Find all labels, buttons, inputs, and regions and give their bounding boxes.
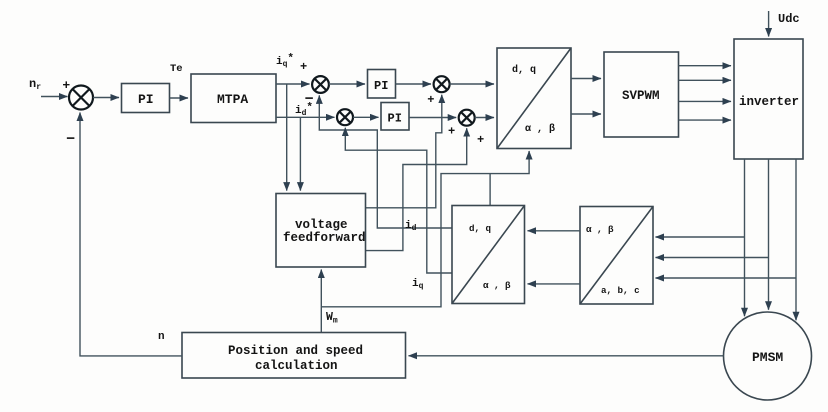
svg-text:PI: PI	[138, 92, 154, 107]
PMSM motor circle	[724, 312, 812, 400]
svg-text:+: +	[477, 133, 484, 147]
MTPA block	[191, 74, 276, 123]
summing junction J3	[337, 109, 353, 125]
wire wm from position box up to voltage feedforward	[320, 270, 322, 333]
svg-text:MTPA: MTPA	[217, 92, 248, 107]
svg-text:PI: PI	[374, 79, 388, 93]
wire branch id* down to voltage feedforward	[299, 117, 301, 190]
wire speed feedback n to J1 minus	[80, 113, 182, 356]
wire voltage feedforward output 2 to J5	[366, 128, 467, 250]
svg-text:α , β: α , β	[483, 280, 511, 291]
wire current tap a to abc transform	[656, 236, 745, 238]
wire dq box to SVPWM upper	[571, 78, 601, 80]
wire PMSM to position block	[409, 355, 724, 357]
svg-text:calculation: calculation	[255, 359, 338, 373]
svg-text:α , β: α , β	[586, 224, 614, 235]
wire theta branch to transforms	[321, 151, 529, 307]
summing junction J1	[69, 86, 93, 110]
svg-text:+: +	[448, 125, 455, 139]
wire inverter phase b down to PMSM	[768, 159, 770, 310]
wire current tap c to abc transform	[656, 277, 797, 279]
PI controller PIq box	[368, 70, 396, 99]
svg-text:SVPWM: SVPWM	[622, 89, 660, 103]
svg-text:Position and speed: Position and speed	[228, 344, 363, 358]
svg-text:PMSM: PMSM	[752, 350, 783, 365]
svg-text:+: +	[300, 60, 307, 74]
wire J3 to PId	[353, 116, 379, 118]
wire J5 to dq/ab transform	[475, 117, 494, 119]
wire PId to J5	[409, 117, 456, 119]
wire current tap b to abc transform	[656, 257, 769, 259]
svg-text:a, b, c: a, b, c	[601, 285, 640, 296]
svg-text:inverter: inverter	[739, 95, 799, 109]
wire abc box to feedback dq box lower	[528, 283, 581, 285]
wire feedback id to J2 minus	[319, 95, 452, 228]
wire inverter phase a down to PMSM	[744, 159, 746, 316]
svg-text:Udc: Udc	[778, 12, 800, 26]
wire J2 to PIq	[329, 83, 365, 85]
svg-text:d, q: d, q	[512, 64, 536, 76]
svg-text:d, q: d, q	[469, 223, 491, 234]
wire SVPWM to inverter 2	[679, 79, 732, 81]
svg-text:−: −	[66, 131, 75, 148]
summing junction J4	[434, 76, 450, 92]
SVPWM block	[604, 52, 679, 137]
wire feedback iq to J3 minus	[345, 128, 452, 273]
svg-text:Te: Te	[170, 63, 183, 75]
svg-text:α , β: α , β	[525, 123, 555, 135]
svg-text:n: n	[158, 331, 165, 343]
PI controller PId box	[381, 103, 409, 131]
svg-text:feedforward: feedforward	[283, 231, 366, 245]
wire MTPA iq* output to J2	[276, 83, 310, 85]
wire nr input	[41, 96, 68, 98]
svg-text:+: +	[62, 78, 70, 93]
svg-text:+: +	[427, 93, 434, 107]
summing junction J2	[312, 76, 329, 93]
wire voltage feedforward output 1 to J4	[366, 95, 442, 208]
abc to alpha-beta transform block	[580, 207, 653, 305]
position and speed calculation block	[182, 333, 406, 379]
wire J4 to dq/ab transform	[450, 83, 494, 85]
dq to alpha-beta transform block	[497, 48, 571, 149]
wire PIq to J4	[396, 83, 432, 85]
wire inverter phase c down to PMSM	[795, 159, 797, 320]
voltage feedforward block	[276, 194, 366, 268]
wire abc box to feedback dq box upper	[528, 230, 581, 232]
wire branch iq* down to voltage feedforward	[286, 84, 288, 191]
wire dq box to SVPWM lower	[571, 113, 601, 115]
summing junction J5	[459, 110, 475, 126]
wire J1 to PI1	[93, 97, 119, 99]
svg-text:voltage: voltage	[295, 218, 348, 232]
wire SVPWM to inverter 4	[679, 119, 732, 121]
svg-text:−: −	[305, 91, 314, 108]
wire Udc into inverter	[768, 11, 770, 37]
inverter block	[734, 39, 803, 159]
svg-text:PI: PI	[388, 112, 402, 126]
wire MTPA id* output to J3	[276, 116, 335, 118]
wire theta branch down into feedback dq transform	[489, 174, 491, 206]
wire PI1 to MTPA	[170, 97, 189, 99]
feedback dq transform block	[452, 206, 525, 304]
PI controller PI1 box	[122, 84, 170, 113]
wire SVPWM to inverter 3	[679, 100, 732, 102]
wire SVPWM to inverter 1	[679, 65, 732, 67]
